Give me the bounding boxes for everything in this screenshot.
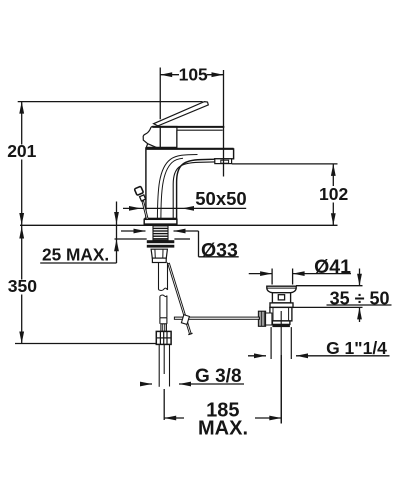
- svg-text:50x50: 50x50: [195, 188, 246, 209]
- svg-text:102: 102: [319, 184, 348, 204]
- svg-text:35 ÷ 50: 35 ÷ 50: [330, 288, 390, 308]
- svg-text:Ø33: Ø33: [201, 239, 238, 261]
- svg-text:G 1"1/4: G 1"1/4: [326, 338, 387, 358]
- svg-text:Ø41: Ø41: [314, 256, 351, 278]
- svg-text:201: 201: [7, 141, 36, 161]
- svg-text:105: 105: [179, 65, 208, 85]
- svg-text:G 3/8: G 3/8: [195, 366, 241, 387]
- svg-text:25 MAX.: 25 MAX.: [42, 245, 109, 265]
- svg-text:MAX.: MAX.: [198, 417, 248, 439]
- svg-text:350: 350: [8, 276, 38, 296]
